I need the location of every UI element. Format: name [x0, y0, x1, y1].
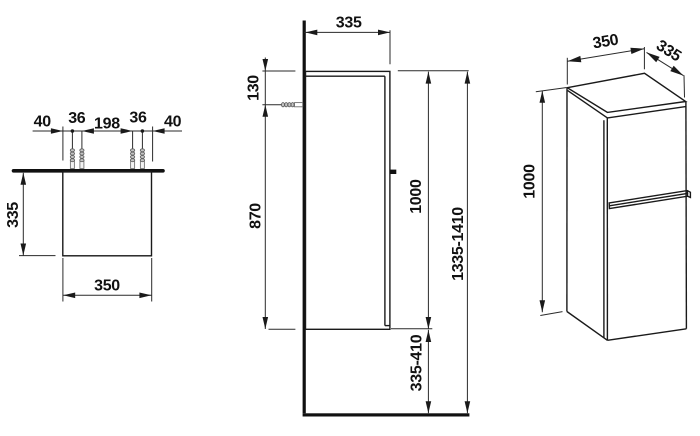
back-left vertical edge — [566, 88, 568, 312]
svg-text:130: 130 — [245, 75, 262, 101]
dowel anchor 4 — [140, 149, 144, 169]
130 arrow down (above top) — [263, 59, 269, 71]
door handle — [390, 170, 396, 174]
335 bottom extension line — [19, 255, 56, 257]
arrow tip dowel2 pointing left — [82, 128, 94, 134]
arrow tip rect-right pointing left — [153, 128, 165, 134]
cabinet outline — [306, 71, 390, 329]
335 top arrow right — [378, 30, 390, 36]
335 arrow top — [647, 52, 660, 62]
svg-text:335-410: 335-410 — [408, 334, 425, 391]
svg-text:350: 350 — [94, 278, 120, 295]
svg-text:36: 36 — [129, 110, 147, 127]
335-410 arrow up — [426, 330, 432, 342]
svg-text:335: 335 — [5, 202, 22, 228]
cabinet top face — [567, 73, 685, 112]
350 extension line right — [151, 258, 153, 302]
870 arrow down — [263, 317, 269, 329]
extension line rect right — [152, 127, 154, 162]
top slab rim left edge — [568, 90, 608, 118]
mounting screw horizontal — [262, 103, 302, 107]
1000 axo extension top — [536, 88, 566, 92]
wall top line — [14, 169, 164, 173]
350 extension left — [566, 58, 568, 85]
dowel shaft 1 — [71, 131, 73, 149]
130/870 dimension line — [264, 58, 266, 330]
1335-1410 dimension line — [466, 72, 468, 414]
1000 axo arrow down — [540, 300, 546, 312]
front-left vertical edge door — [606, 118, 608, 340]
front-right vertical edge — [685, 102, 688, 329]
350 arrow left — [63, 293, 75, 299]
1000 axo extension bottom — [540, 312, 562, 316]
door bottom edge — [385, 325, 390, 327]
front-left vertical edge carcass — [603, 120, 605, 337]
svg-text:870: 870 — [248, 203, 265, 229]
335 top dimension line — [304, 31, 390, 33]
335 dimension line — [647, 52, 684, 75]
350 dimension line — [568, 49, 645, 62]
handle bar — [609, 191, 690, 209]
arrow tip rect-left pointing right — [51, 128, 63, 134]
dot marker dowel4 — [141, 129, 145, 133]
extension line cabinet top left — [262, 70, 295, 72]
dowel anchor 1 — [70, 149, 74, 169]
dowel shaft 3 — [132, 131, 134, 149]
335 arrow down — [21, 244, 27, 256]
cabinet body rectangle — [63, 172, 152, 256]
svg-text:40: 40 — [164, 114, 182, 131]
svg-text:1335-1410: 1335-1410 — [450, 207, 467, 281]
1335-1410 arrow up — [465, 72, 471, 84]
svg-text:198: 198 — [94, 116, 120, 133]
svg-text:40: 40 — [34, 114, 52, 131]
1000 dimension line — [427, 72, 429, 329]
350 extension right — [643, 47, 645, 69]
svg-text:36: 36 — [68, 110, 86, 127]
350 arrow right — [139, 293, 151, 299]
svg-text:1000: 1000 — [522, 164, 539, 199]
wall vertical — [303, 21, 306, 414]
cabinet inner top line — [306, 75, 385, 77]
extension line cabinet bottom right — [391, 328, 432, 330]
1000 arrow up — [426, 72, 432, 84]
dowel shaft 4 — [141, 131, 143, 149]
top dimension line — [33, 130, 182, 132]
335 arrow bottom — [670, 66, 683, 76]
dowel anchor 2 — [80, 149, 84, 169]
335 top arrow left — [305, 30, 317, 36]
cabinet inner front line — [384, 76, 386, 325]
1000 axo dimension line — [541, 91, 543, 312]
1000 arrow down — [426, 317, 432, 329]
floor horizontal — [303, 413, 470, 416]
350 arrow right — [630, 48, 644, 54]
bottom front edge — [607, 329, 686, 341]
extension line rect left — [62, 127, 64, 161]
335-410 arrow down — [426, 401, 432, 413]
extension line cabinet top right — [398, 70, 469, 72]
1000 axo arrow up — [540, 91, 546, 103]
bottom left edge — [567, 312, 608, 341]
350 arrow left — [568, 56, 582, 62]
dowel shaft 2 — [81, 131, 83, 149]
arrow tip dowel3 pointing right — [121, 128, 133, 134]
top slab rim front edge — [607, 107, 685, 118]
335 extension right — [683, 75, 686, 97]
130/870 arrow up (below screw) — [263, 105, 269, 117]
335 arrow up — [21, 173, 27, 185]
335-410 dimension line — [427, 330, 429, 413]
1335-1410 arrow down — [465, 401, 471, 413]
335 dimension line vertical — [22, 173, 24, 256]
svg-text:1000: 1000 — [408, 179, 425, 214]
svg-text:335: 335 — [336, 15, 362, 32]
350 extension line left — [62, 258, 64, 302]
350 dimension line — [63, 294, 152, 296]
dot marker dowel1 — [71, 129, 75, 133]
dowel anchor 3 — [131, 149, 135, 169]
extension line cabinet bottom left — [269, 328, 296, 330]
335 top extension right — [389, 30, 391, 64]
